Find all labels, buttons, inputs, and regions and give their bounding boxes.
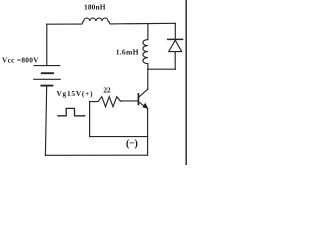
diode D1 triangle <box>169 40 182 51</box>
svg-text:1.6mH: 1.6mH <box>116 47 139 56</box>
wire junction to collector <box>147 69 149 89</box>
resistor R 22 zigzag <box>90 97 121 107</box>
transistor Q1 base bar <box>137 94 139 105</box>
wire junction connector to diode branch <box>148 68 175 70</box>
wire right branch top drop <box>147 24 149 40</box>
wire gate loop left vertical <box>89 102 91 137</box>
wire gate loop bottom return <box>90 136 148 138</box>
svg-text:(−): (−) <box>126 139 138 150</box>
figure edge line <box>185 0 187 165</box>
wire base lead <box>121 100 139 102</box>
transistor Q1 emitter <box>139 102 148 109</box>
svg-text:Vcc =800V: Vcc =800V <box>2 55 39 64</box>
pulse waveform annotation <box>58 108 85 115</box>
wire bottom rail <box>45 154 147 156</box>
wire coil to junction <box>147 64 149 70</box>
wire emitter down lead <box>147 109 149 156</box>
wire battery bottom lead / left rail <box>45 86 46 156</box>
transistor Q1 emitter arrow <box>142 103 148 109</box>
inductor 1.6mH coil <box>143 40 148 64</box>
battery Vcc plate short bottom <box>41 85 52 87</box>
battery Vcc plate short <box>42 72 53 74</box>
wire diode bottom lead <box>174 52 176 70</box>
wire top rail with inductor hump section <box>47 18 176 24</box>
wire diode top lead <box>174 23 176 39</box>
svg-text:Vg15V(+): Vg15V(+) <box>57 89 94 98</box>
diode D1 cathode bar <box>168 38 183 40</box>
wire battery top lead <box>46 24 48 65</box>
transistor Q1 collector <box>139 89 148 97</box>
svg-text:180nH: 180nH <box>84 3 106 12</box>
svg-text:22: 22 <box>103 86 111 95</box>
battery Vcc plate long top <box>34 65 60 67</box>
battery Vcc plate long <box>34 78 60 80</box>
